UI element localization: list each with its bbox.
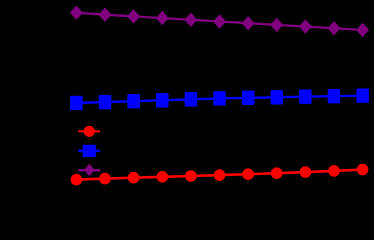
legend red: [78, 130, 100, 132]
legend blue: [78, 150, 100, 153]
purple line: [76, 13, 362, 30]
blue squares: [70, 96, 82, 98]
red line: [76, 170, 362, 180]
purple diamonds: [70, 6, 83, 20]
legend purple: [78, 169, 100, 172]
blue line: [76, 96, 362, 103]
red circles: [71, 174, 83, 186]
